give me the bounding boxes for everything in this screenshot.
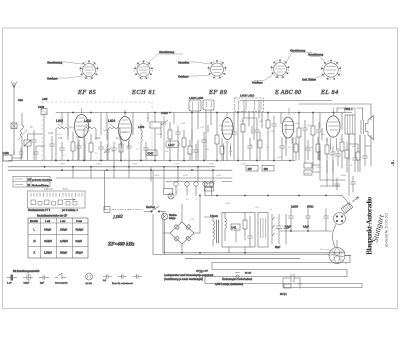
buffer caps box (258, 213, 268, 248)
svg-text:ab Gerät Nr. 5 100 001: ab Gerät Nr. 5 100 001 (385, 213, 389, 248)
svg-text:C437: C437 (209, 164, 215, 166)
power rails (163, 253, 345, 259)
vibrator unit box (222, 213, 255, 248)
svg-text:0,5µF: 0,5µF (24, 283, 30, 285)
svg-text:Abschirmung: Abschirmung (290, 49, 306, 53)
svg-text:L ant: L ant (45, 220, 50, 223)
svg-text:R408: R408 (154, 175, 160, 177)
svg-text:für alle: für alle (245, 272, 252, 275)
electrolytic pair 1 (275, 214, 282, 249)
legend icon 3 (39, 276, 49, 285)
oscillator coil can L408 (203, 100, 214, 160)
svg-text:5747: 5747 (63, 189, 69, 191)
coil L403 (138, 124, 145, 160)
resistor R414 (215, 113, 219, 161)
mains transformer T-Netz (204, 214, 219, 246)
svg-text:46,5µH: 46,5µH (44, 240, 52, 243)
svg-text:0,1 2A: 0,1 2A (86, 282, 93, 285)
serpentine row components (199, 273, 240, 279)
svg-text:Drucktastensatz 4 T 1: Drucktastensatz 4 T 1 (28, 209, 51, 212)
tube envelope V1 (75, 108, 89, 144)
link component (104, 207, 110, 213)
IF can T1 (235, 94, 264, 161)
tube socket V5 EL84 (302, 53, 341, 82)
capacitor C403 (32, 130, 37, 160)
svg-text:(Ausführung je nach Gerätetype: (Ausführung je nach Gerätetype) (164, 277, 203, 281)
svg-text:C408: C408 (96, 164, 102, 166)
legend icon 1 (7, 275, 17, 285)
boxed part numbers row (146, 150, 274, 171)
svg-text:280µH: 280µH (60, 252, 67, 255)
svg-text:C455: C455 (316, 167, 322, 169)
output stage parts (320, 142, 358, 192)
svg-text:Zerhacker: Zerhacker (320, 248, 330, 251)
svg-text:- 5 -: - 5 - (391, 160, 395, 166)
capacitor C407 (77, 140, 82, 160)
lower rail A (8, 160, 295, 162)
svg-text:ECH 81: ECH 81 (131, 89, 156, 96)
svg-text:Drosselspule: Drosselspule (55, 282, 68, 285)
svg-text:C402: C402 (38, 105, 45, 109)
svg-text:R401: R401 (69, 127, 75, 129)
svg-text:Best.-Nr. entnehmen!: Best.-Nr. entnehmen! (112, 282, 133, 285)
left value smudges (30, 127, 119, 191)
svg-text:Auto: Auto (18, 99, 24, 102)
svg-text:6,3V: 6,3V (190, 219, 195, 221)
HT rail (205, 196, 350, 206)
dial lamp (161, 213, 177, 220)
svg-text:1,35µH: 1,35µH (44, 252, 52, 255)
fill components row2 (144, 113, 368, 173)
svg-text:C413: C413 (57, 134, 63, 136)
svg-text:R415: R415 (183, 175, 189, 177)
svg-text:0,1µF: 0,1µF (303, 227, 310, 229)
legend group right circle (86, 273, 93, 285)
tube socket V2 ECH81 (134, 50, 183, 79)
tube envelope V5 (326, 108, 340, 144)
svg-text:50µF: 50µF (275, 247, 281, 249)
svg-text:C426: C426 (161, 111, 168, 115)
tube envelope V2 (118, 110, 132, 148)
svg-text:300Ω: 300Ω (307, 205, 313, 209)
svg-text:EL 84: EL 84 (320, 89, 339, 96)
svg-text:mit Type 447: mit Type 447 (196, 270, 209, 273)
V5 stage parts (304, 134, 365, 190)
svg-text:L404: L404 (108, 119, 115, 123)
svg-text:C449: C449 (277, 157, 283, 159)
capacitor C405 (50, 136, 55, 160)
oscillator coil can L406 (189, 96, 204, 160)
lower rail C (8, 169, 232, 171)
coil L402 (56, 119, 68, 160)
trimmer C410 (104, 144, 111, 160)
extra drop wires output stage (320, 113, 342, 173)
svg-text:L403: L403 (138, 125, 145, 129)
svg-text:7452 +: 7452 + (344, 107, 353, 111)
rail segment upper (240, 100, 332, 102)
resistor R403 (119, 136, 123, 160)
resistor R402 (89, 134, 93, 160)
svg-text:Abschirmung: Abschirmung (159, 50, 175, 54)
svg-text:1 µF: 1 µF (7, 283, 12, 285)
svg-text:C osz: C osz (76, 221, 83, 223)
legend icon 2 (23, 274, 33, 285)
svg-text:C439: C439 (216, 175, 222, 177)
svg-text:210µH: 210µH (60, 229, 67, 232)
tube socket V4 EABC80 (252, 49, 312, 85)
svg-text:C443: C443 (241, 164, 247, 166)
svg-text:Gehäuse: Gehäuse (47, 77, 58, 81)
extra drop wires IF stage (241, 113, 313, 171)
trimmer C426 (161, 111, 168, 160)
power connector (334, 197, 359, 225)
svg-text:gedruckte Schaltung: gedruckte Schaltung (32, 179, 53, 182)
svg-text:C405: C405 (48, 133, 54, 135)
extra drop wires mid stage (148, 113, 231, 182)
electrolytic pair 2 (284, 214, 289, 244)
tube socket V3 EF89 (178, 60, 227, 79)
main top rail (56, 112, 352, 114)
svg-text:Ein/Aus: Ein/Aus (146, 205, 156, 209)
svg-text:C429: C429 (174, 164, 180, 166)
svg-text:L409 L410: L409 L410 (240, 94, 255, 98)
svg-text:E ABC 80: E ABC 80 (274, 90, 301, 96)
mixer box (150, 113, 161, 161)
suppression caps row (280, 205, 332, 232)
resistor R412 (182, 130, 186, 160)
svg-text:U41: U41 (232, 226, 237, 230)
trimmer C402 (38, 105, 47, 160)
svg-text:C404: C404 (60, 164, 66, 166)
svg-text:C418: C418 (132, 164, 138, 166)
svg-text:0,1µF: 0,1µF (285, 227, 292, 229)
svg-text:150µH: 150µH (76, 252, 83, 255)
tuning table (28, 218, 88, 258)
svg-text:R410: R410 (157, 134, 163, 136)
svg-text:L406 L408: L406 L408 (189, 96, 204, 100)
svg-text:Blaupunkt-Autoradio: Blaupunkt-Autoradio (366, 196, 374, 254)
coil L404 (108, 119, 120, 160)
capacitor C4a (34, 146, 45, 160)
svg-text:5747: 5747 (148, 152, 154, 156)
svg-text:C416: C416 (122, 132, 128, 134)
svg-text:457: 457 (248, 167, 253, 171)
lower rail B (chassis) (8, 166, 215, 168)
svg-text:Bereich: Bereich (30, 220, 39, 223)
coil L405 (18, 113, 27, 160)
trimmer C401 (24, 134, 42, 160)
svg-text:EF 85: EF 85 (77, 89, 96, 96)
antenna connector C400 (3, 150, 23, 161)
capacitor C409 (99, 141, 104, 160)
svg-text:2µF: 2µF (40, 283, 44, 285)
svg-text:M: M (34, 240, 36, 243)
svg-text:30,5µH: 30,5µH (76, 229, 84, 232)
antenna (12, 82, 17, 155)
mid components column (241, 113, 277, 161)
svg-text:L417: L417 (168, 143, 175, 147)
svg-text:Dr: Dr (270, 208, 273, 211)
legend table (13, 177, 53, 188)
tube envelope V4 (282, 108, 294, 144)
svg-text:C461: C461 (225, 203, 231, 205)
svg-text:Abschirmung: Abschirmung (47, 61, 63, 65)
coil L400 (84, 119, 96, 160)
svg-text:ZF=460 kHz: ZF=460 kHz (107, 243, 134, 248)
svg-text:C428: C428 (180, 123, 186, 125)
svg-text:Abschirm.: Abschirm. (178, 61, 190, 65)
svg-text:C409: C409 (95, 138, 101, 140)
tube socket V1 EF85 (47, 60, 99, 80)
svg-text:Gehäuse: Gehäuse (178, 75, 189, 79)
svg-text:Nachstimmbereiche der ZF: Nachstimmbereiche der ZF (37, 215, 68, 218)
svg-text:R438: R438 (305, 173, 311, 175)
DIN socket row (164, 182, 233, 200)
svg-text:4,5W Lautspr. (wahlweise): 4,5W Lautspr. (wahlweise) (215, 283, 243, 286)
svg-text:Änderungen vorbehalten!: Änderungen vorbehalten! (222, 277, 252, 281)
speaker feed wires (299, 104, 371, 196)
RF shield dashed box (42, 102, 152, 160)
capacitor C428 (176, 126, 181, 160)
svg-text:Gehäuse: Gehäuse (252, 81, 263, 85)
tube envelope V3 (222, 113, 234, 150)
extra drop wires left stage (62, 113, 164, 189)
svg-text:T.Netz: T.Netz (210, 214, 219, 218)
svg-text:450: 450 (264, 167, 269, 171)
svg-text:Lautsprecher und Drosselspule: Lautsprecher und Drosselspule angebaut (164, 273, 213, 277)
boxed label L417 (166, 141, 179, 148)
capacitor C412 (127, 138, 132, 160)
loudspeaker (361, 116, 374, 140)
svg-text:L405: L405 (42, 98, 48, 101)
svg-text:L osz: L osz (60, 221, 66, 223)
capacitor C411 (112, 142, 117, 160)
svg-text:Blechausführung: Blechausführung (32, 184, 49, 187)
svg-text:Mit Entstörungszubehör: Mit Entstörungszubehör (13, 270, 40, 273)
on/off switch (144, 170, 166, 212)
RC bottom right (280, 274, 302, 296)
resistor R410 (168, 122, 172, 160)
svg-text:EF 89: EF 89 (208, 89, 227, 96)
svg-text:per 3 selbstp. 4: per 3 selbstp. 4 (62, 209, 78, 212)
svg-text:1M: 1M (206, 149, 209, 151)
vibrator motor (229, 225, 351, 264)
capacitor C430 (202, 132, 207, 160)
svg-text:C404 30: C404 30 (44, 189, 53, 191)
capacitor C406 (60, 142, 65, 160)
output transformer (345, 108, 355, 134)
svg-text:2,45µH: 2,45µH (60, 240, 68, 243)
svg-text:C40: C40 (58, 138, 63, 140)
svg-text:C400: C400 (3, 151, 10, 155)
legend icon 4 (55, 273, 68, 285)
scattered value labels (57, 118, 357, 265)
svg-text:2x600: 2x600 (291, 205, 299, 209)
pushbutton switch box (28, 191, 86, 212)
mechanical link dash-dot (104, 209, 143, 211)
svg-text:0,3µH: 0,3µH (76, 240, 83, 243)
choke arrows (272, 214, 275, 244)
resistor R401 (71, 132, 75, 160)
svg-text:Abschirmung: Abschirmung (308, 53, 324, 57)
svg-text:140µH: 140µH (44, 229, 51, 232)
svg-text:30 5,1: 30 5,1 (280, 293, 287, 296)
cable serpentine (153, 214, 362, 288)
svg-text:R440: R440 (341, 175, 347, 177)
lower rail D (56, 177, 232, 179)
legend group right caps (103, 275, 142, 286)
bridge rectifier (163, 204, 200, 253)
svg-text:Geh. Masse: Geh. Masse (302, 78, 317, 82)
V4 stage parts (297, 113, 322, 161)
